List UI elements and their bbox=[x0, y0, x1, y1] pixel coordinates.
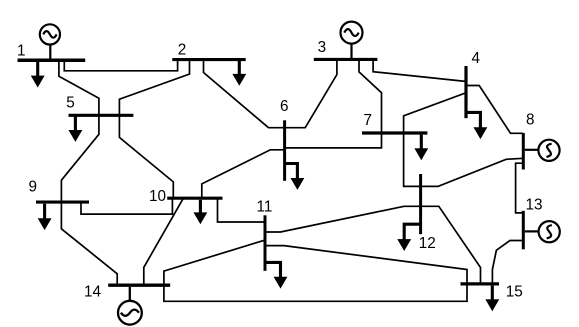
load at bus 10 bbox=[194, 200, 207, 224]
bus 15 bbox=[461, 282, 500, 285]
bus 5 bbox=[69, 114, 134, 117]
svg-text:4: 4 bbox=[471, 50, 480, 67]
wire line 11-12 bbox=[267, 206, 420, 232]
bus 9 bbox=[36, 201, 89, 204]
generator G13 at bus 13 bbox=[525, 221, 560, 242]
wire line 3-6 bbox=[286, 61, 337, 128]
svg-text:11: 11 bbox=[257, 199, 273, 216]
wire line 3-4 bbox=[373, 61, 464, 82]
load at bus 5 bbox=[69, 117, 82, 142]
svg-text:6: 6 bbox=[280, 98, 289, 115]
load at bus 9 bbox=[38, 204, 51, 230]
svg-text:15: 15 bbox=[506, 284, 523, 301]
wire line 9-14 bbox=[61, 204, 117, 284]
bus 11 bbox=[264, 215, 267, 270]
bus 13 bbox=[522, 211, 525, 250]
bus 3 bbox=[314, 58, 378, 61]
bus 8 bbox=[522, 133, 525, 170]
wire line 6-10 bbox=[202, 150, 283, 197]
wire line 14-15 bbox=[164, 286, 467, 302]
wire line 7-12 bbox=[404, 135, 420, 187]
svg-text:14: 14 bbox=[84, 284, 102, 301]
generator G1 at bus 1 bbox=[40, 24, 60, 58]
generator G14 at bus 14 bbox=[118, 287, 142, 325]
load at bus 1 bbox=[31, 62, 44, 87]
load at bus 12 bbox=[398, 224, 420, 250]
wire line 12-15 bbox=[422, 206, 480, 282]
bus 12 bbox=[419, 174, 422, 234]
svg-text:9: 9 bbox=[28, 179, 37, 196]
load at bus 7 bbox=[415, 135, 428, 160]
wire line 13-15 bbox=[492, 241, 521, 283]
load at bus 6 bbox=[286, 164, 304, 190]
load at bus 4 bbox=[467, 112, 487, 138]
svg-text:7: 7 bbox=[364, 112, 373, 129]
wire line 2-5 bbox=[119, 61, 189, 114]
svg-text:10: 10 bbox=[149, 188, 166, 205]
svg-text:8: 8 bbox=[526, 112, 535, 129]
wire line 11-14 bbox=[164, 241, 264, 284]
wire line 2-6 bbox=[204, 61, 284, 128]
wire line 5-10 bbox=[119, 117, 173, 197]
svg-text:2: 2 bbox=[178, 42, 187, 59]
svg-text:1: 1 bbox=[17, 42, 26, 59]
bus 2 bbox=[172, 58, 245, 61]
load at bus 15 bbox=[486, 286, 499, 311]
svg-text:5: 5 bbox=[66, 95, 75, 112]
wire line 8-12 bbox=[422, 158, 521, 186]
svg-text:12: 12 bbox=[419, 235, 436, 252]
bus 4 bbox=[464, 66, 467, 118]
wire line 6-7 bbox=[286, 135, 382, 148]
generator G3 at bus 3 bbox=[341, 22, 363, 58]
generator G8 at bus 8 bbox=[525, 140, 560, 161]
wire line 10-11 bbox=[218, 200, 264, 222]
bus 10 bbox=[167, 197, 222, 200]
wire line 1-5 bbox=[59, 62, 99, 114]
wire line 4-7 bbox=[404, 93, 465, 131]
load at bus 2 bbox=[233, 61, 246, 85]
load at bus 11 bbox=[267, 262, 287, 288]
svg-text:13: 13 bbox=[525, 197, 542, 214]
bus 1 bbox=[18, 59, 86, 63]
bus 6 bbox=[283, 120, 286, 181]
wire line 11-15 bbox=[267, 246, 468, 283]
wire line 10-14 bbox=[144, 200, 183, 284]
bus 7 bbox=[362, 131, 427, 134]
wire line 3-7 bbox=[359, 61, 382, 132]
wire line 5-9 bbox=[61, 117, 99, 201]
wire line 8-13 bbox=[516, 163, 522, 213]
wire line 9-10 bbox=[81, 200, 172, 214]
bus 14 bbox=[108, 284, 170, 287]
wire line 1-2 bbox=[64, 61, 177, 71]
wire line 4-8 bbox=[468, 86, 522, 134]
svg-text:3: 3 bbox=[318, 39, 327, 56]
